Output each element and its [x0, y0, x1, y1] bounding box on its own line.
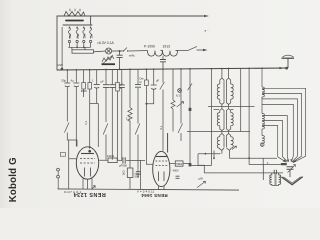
- svg-text:240: 240: [76, 33, 80, 38]
- svg-text:4000: 4000: [173, 169, 179, 173]
- svg-text:Ω: Ω: [140, 80, 142, 84]
- svg-text:5MΩ: 5MΩ: [176, 162, 182, 166]
- svg-text:a ··: a ··: [205, 29, 210, 33]
- svg-text:220: 220: [68, 33, 72, 38]
- svg-text:≈2W: ≈2W: [57, 63, 63, 67]
- svg-text:Kobold G: Kobold G: [8, 157, 19, 202]
- svg-text:4µ: 4µ: [71, 79, 74, 83]
- svg-text:10kΩ: 10kΩ: [107, 154, 115, 158]
- svg-text:0,1: 0,1: [84, 120, 88, 124]
- svg-text:Dw: Dw: [140, 77, 144, 81]
- svg-text:V = 2-4 0,11: V = 2-4 0,11: [137, 190, 155, 194]
- svg-text:0,1: 0,1: [159, 125, 163, 129]
- svg-text:6,3: 6,3: [176, 94, 180, 98]
- svg-text:P-1090: P-1090: [144, 45, 155, 49]
- svg-text:µF500: µF500: [119, 164, 127, 168]
- svg-text:µF: µF: [120, 83, 124, 87]
- svg-text:125: 125: [83, 33, 87, 38]
- svg-text:≈6,3V 0,1A: ≈6,3V 0,1A: [97, 41, 114, 45]
- svg-text:1kΩ: 1kΩ: [121, 170, 125, 175]
- svg-text:1913: 1913: [163, 45, 171, 49]
- svg-text:µW: µW: [199, 177, 204, 181]
- svg-text:RENS 1234: RENS 1234: [73, 191, 106, 197]
- svg-text:500: 500: [135, 175, 140, 179]
- svg-text:mWₓ: mWₓ: [129, 54, 135, 58]
- svg-text:50µ: 50µ: [62, 79, 67, 83]
- svg-text:6000: 6000: [81, 89, 87, 93]
- svg-text:110: 110: [89, 34, 93, 39]
- svg-text:1,3: 1,3: [126, 117, 131, 121]
- svg-text:RENS 1664: RENS 1664: [141, 193, 168, 198]
- svg-text:µF: µF: [101, 80, 105, 84]
- svg-text:µF: µF: [156, 79, 160, 83]
